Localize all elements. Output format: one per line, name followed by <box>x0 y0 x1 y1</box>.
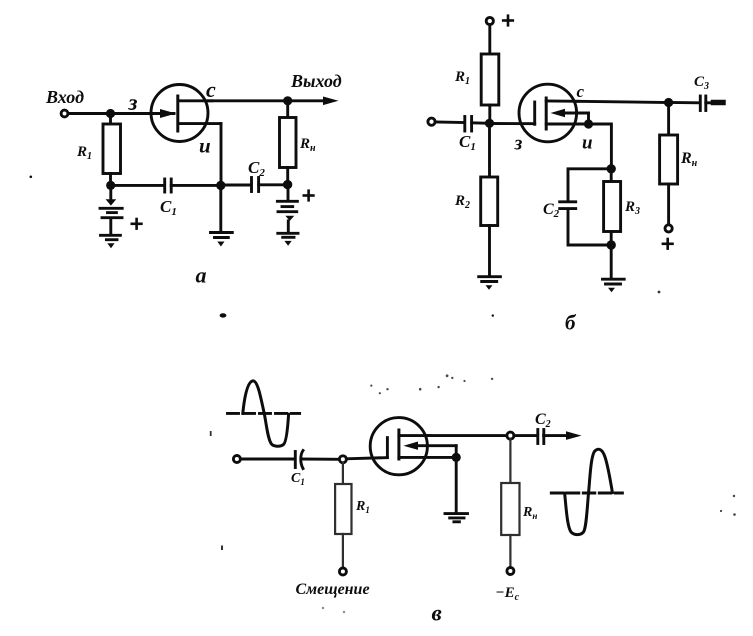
svg-text:−Ес: −Ес <box>496 585 520 603</box>
scan speck near R1 label (а) <box>30 176 33 179</box>
resistor R1 (в, faint) <box>335 463 351 568</box>
wire to C2 top (б) <box>568 169 611 201</box>
wire bottom-left to C1 <box>111 184 164 187</box>
wire source to R3 branch (б) <box>589 124 612 169</box>
input terminal (б) <box>428 118 435 125</box>
svg-text:С1: С1 <box>291 471 305 487</box>
label + (output, б) <box>663 239 673 249</box>
svg-text:R1: R1 <box>76 144 92 162</box>
svg-text:и: и <box>582 133 593 154</box>
resistor R2 (б) <box>481 123 498 275</box>
svg-text:R3: R3 <box>624 199 640 217</box>
input sine waveform (в) <box>228 381 300 446</box>
input terminal (а) <box>61 110 68 117</box>
node source junction (в) <box>452 453 461 462</box>
battery GB2 with ground (right, а) <box>277 187 298 246</box>
resistor Rн (в, faint) <box>501 439 519 567</box>
output terminal (б) <box>665 225 672 232</box>
wire source to ground (в) <box>455 457 458 512</box>
capacitor C2 (в) <box>538 430 544 444</box>
ground (R2, б) <box>479 277 501 290</box>
wire input to C1 (б) <box>435 121 464 124</box>
node output junction (в) <box>507 432 514 439</box>
node output junction (а) <box>283 96 292 105</box>
node gate junction (б) <box>485 119 494 128</box>
resistor R3 (б) <box>604 169 621 245</box>
input terminal (в) <box>233 456 240 463</box>
svg-text:с: с <box>206 77 216 102</box>
resistor R1 (б) <box>481 25 499 124</box>
node Rн top junction (б) <box>664 98 673 107</box>
svg-text:Вход: Вход <box>45 87 84 107</box>
node R3 top junction (б) <box>607 164 616 173</box>
wire C1 to gate node (б) <box>472 121 490 124</box>
svg-text:Выход: Выход <box>290 71 342 91</box>
svg-text:б: б <box>565 311 577 335</box>
capacitor C2 (б) <box>560 202 576 209</box>
svg-text:С2: С2 <box>543 201 560 220</box>
wire C2 to output arrow (в) <box>544 434 568 437</box>
wire C2 bottom to R3 bottom (б) <box>568 210 611 246</box>
wire C1 to bias node (в) <box>302 458 339 461</box>
svg-text:R2: R2 <box>454 193 470 211</box>
wire drain to output node (в) <box>427 434 507 437</box>
node center junction (а) <box>216 181 225 190</box>
wire C2 to right junction <box>259 183 288 186</box>
scan specks left of caption в <box>322 607 345 613</box>
scan speck below circuit а <box>220 313 227 317</box>
wire output node to C2 (в) <box>514 434 536 437</box>
supply terminal (б) <box>486 17 493 24</box>
svg-text:и: и <box>199 134 211 158</box>
scan speck near caption б <box>492 314 494 316</box>
svg-text:в: в <box>432 601 442 626</box>
bias terminal (в) <box>339 568 346 575</box>
wire center junction down <box>219 185 222 231</box>
wire R3 junction to ground (б) <box>610 245 613 278</box>
label + (right battery, а) <box>304 191 314 201</box>
transistor VT2 (MOSFET, circuit б) <box>519 84 589 142</box>
scan tick below circuit в input <box>221 546 223 551</box>
resistor Rн (б) <box>660 103 678 225</box>
wire center junction to C2 <box>221 184 251 187</box>
svg-text:Смещение: Смещение <box>296 581 370 598</box>
svg-text:С3: С3 <box>694 74 709 92</box>
svg-text:Rн: Rн <box>522 505 537 521</box>
transistor VT3 (MOSFET, circuit в) <box>370 418 456 475</box>
svg-text:R1: R1 <box>355 499 370 515</box>
output arrow (в) <box>566 431 582 440</box>
transistor VT1 (JFET, circuit а) <box>151 85 221 142</box>
node bias junction (в) <box>339 456 346 463</box>
svg-text:С2: С2 <box>248 158 265 179</box>
capacitor C1 (а) <box>165 179 172 192</box>
label + (supply, б) <box>503 16 513 26</box>
ground (R3, б) <box>603 279 625 292</box>
wire C1 to source node <box>171 184 221 187</box>
scan tick left of circuit в <box>210 431 212 436</box>
resistor R1 (а) <box>103 114 121 186</box>
capacitor C3 (б) <box>669 96 723 111</box>
svg-text:з: з <box>128 90 138 115</box>
scan specks above circuit в <box>370 374 493 394</box>
supply terminal -Ec (в) <box>507 568 514 575</box>
ground (в) <box>445 514 468 522</box>
node right bottom junction (а) <box>283 180 292 189</box>
wire drain to Rн node (б) <box>578 101 669 102</box>
resistor Rн (а) <box>280 101 297 185</box>
svg-text:С2: С2 <box>535 411 551 430</box>
wire input to gate <box>68 112 174 115</box>
svg-text:С1: С1 <box>459 132 476 153</box>
wire drain to output <box>208 99 326 102</box>
node R3 bottom junction (б) <box>607 240 616 249</box>
svg-text:а: а <box>196 263 207 288</box>
output sine waveform (в) <box>551 449 622 534</box>
node gate junction (а) <box>106 109 115 118</box>
node bottom-left junction (а) <box>106 181 115 190</box>
svg-text:з: з <box>514 133 523 155</box>
wire bias node to gate (в) <box>346 458 387 459</box>
svg-text:с: с <box>577 82 585 101</box>
svg-text:С1: С1 <box>160 197 177 218</box>
capacitor C2 (а) <box>252 178 259 192</box>
svg-text:R1: R1 <box>454 69 470 87</box>
wire gate node to transistor (б) <box>490 122 535 125</box>
capacitor C1 (в) <box>295 451 303 469</box>
capacitor C1 (б) <box>465 117 472 132</box>
label + (left battery, а) <box>132 219 142 229</box>
wire source down <box>220 124 223 186</box>
scan specks right edge <box>720 495 736 516</box>
svg-text:Rн: Rн <box>299 136 316 154</box>
scan speck right of circuit б <box>658 291 661 294</box>
node source junction (б) <box>584 119 593 128</box>
battery GB1 with ground (left, а) <box>100 188 122 249</box>
output arrow (а) <box>323 97 339 106</box>
wire input to C1 (в) <box>240 458 294 461</box>
ground (center, а) <box>211 233 233 247</box>
svg-text:Rн: Rн <box>680 150 698 169</box>
